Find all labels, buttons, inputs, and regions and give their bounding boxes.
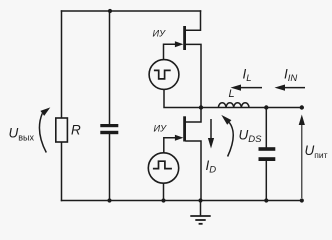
wire drain of Q2 — [186, 108, 201, 123]
arrow U_vyh (arc) — [39, 107, 50, 152]
wire inductor line — [201, 107, 302, 109]
node input terminal bottom — [300, 198, 304, 202]
wire G1 bottom to node — [164, 90, 201, 108]
node input terminal top — [300, 105, 304, 109]
wire capacitor C2 branch — [265, 108, 267, 148]
svg-text:ИУ: ИУ — [153, 28, 167, 38]
arrow I_D — [208, 119, 214, 149]
resistor R — [56, 118, 68, 142]
wire source of Q1 to node — [186, 44, 201, 107]
arrow U_DS (arc) — [221, 115, 233, 157]
node bottom C2 — [264, 198, 268, 202]
wire gate of Q1 to generator G1 — [164, 44, 180, 59]
node top bus / C1 — [108, 9, 112, 13]
arrow I_L — [231, 85, 263, 91]
wire capacitor C1 branch vertical — [109, 11, 111, 124]
wire G2 bottom — [163, 184, 165, 201]
arrow I_IN — [275, 85, 306, 91]
pulse generator G2 — [148, 153, 178, 183]
svg-text:ИУ: ИУ — [154, 123, 168, 133]
capacitor C2 plates — [259, 147, 276, 161]
svg-text:R: R — [71, 123, 81, 138]
svg-text:L: L — [229, 88, 235, 100]
node bottom C1 — [107, 198, 111, 202]
arrow U_pit (voltage arrow) — [299, 115, 305, 199]
pulse generator G1 — [149, 60, 179, 90]
ground — [190, 201, 210, 224]
wire drain of Q1 — [186, 11, 201, 30]
inductor L — [218, 103, 249, 108]
wire top bus — [62, 10, 201, 12]
capacitor C1 plates — [100, 124, 118, 134]
transistor Q1 (upper MOSFET) — [175, 26, 186, 50]
transistor Q2 (lower MOSFET) — [175, 116, 186, 141]
wire bottom bus — [62, 200, 303, 202]
wire source of Q2 down — [186, 141, 201, 201]
node bottom ground — [198, 198, 202, 202]
wire left branch (resistor) vertical — [61, 11, 63, 118]
node L / C2 top — [264, 105, 268, 109]
node switching point (Q1 source / Q2 drain / L) — [199, 105, 203, 109]
wire gate of Q2 to generator G2 — [164, 138, 179, 153]
node bottom G2 — [161, 198, 165, 202]
